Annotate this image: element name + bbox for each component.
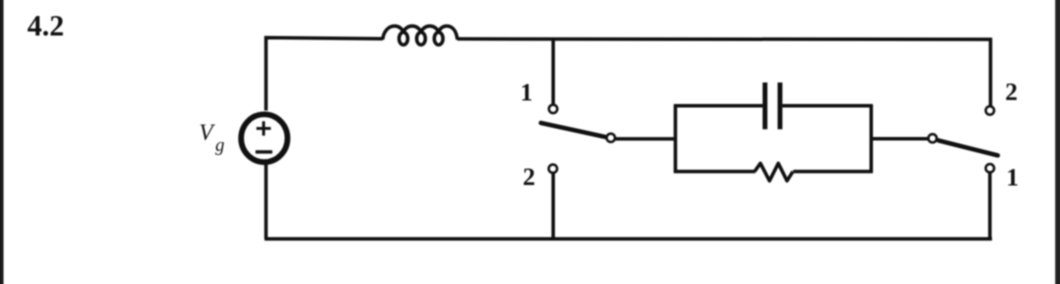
voltage source Vg circle bbox=[241, 114, 287, 162]
wire from S1 throw 2 down to bottom rail bbox=[551, 173, 555, 239]
resistor R zigzag bbox=[755, 163, 793, 181]
svg-text:1: 1 bbox=[1006, 164, 1019, 191]
inductor L bbox=[383, 26, 458, 45]
network box bottom edge right part bbox=[793, 170, 872, 174]
wire stub from top rail down to switch S1 throw 1 bbox=[551, 39, 555, 105]
svg-text:2: 2 bbox=[523, 164, 536, 191]
network box right edge bbox=[869, 104, 873, 173]
plus sign inside source bbox=[256, 121, 270, 135]
svg-text:2: 2 bbox=[1005, 79, 1018, 106]
switch S2 throw-1 contact bbox=[986, 164, 994, 172]
network box top edge left part bbox=[674, 104, 763, 108]
svg-text:1: 1 bbox=[520, 80, 533, 107]
wire top rail from inductor to top-right corner down to switch S2 throw 2 bbox=[457, 39, 990, 107]
wire network box to S2 pole bbox=[871, 137, 928, 141]
switch S1 throw-1 contact bbox=[549, 105, 557, 113]
switch S2 throw-2 contact bbox=[986, 106, 994, 114]
switch S2 blade bbox=[938, 140, 998, 155]
wire bottom rail bbox=[265, 237, 993, 241]
switch S1 pole contact bbox=[607, 134, 615, 142]
capacitor C plates bbox=[765, 83, 780, 130]
svg-text:V: V bbox=[199, 120, 216, 145]
network box bottom edge left part bbox=[674, 170, 755, 174]
switch S1 throw-2 contact bbox=[549, 165, 557, 173]
wire from source top to inductor (left vertical + top rail left segment) bbox=[266, 38, 383, 111]
switch S2 pole contact bbox=[928, 134, 936, 142]
svg-text:g: g bbox=[215, 136, 224, 156]
switch S1 blade bbox=[541, 123, 605, 137]
network box left edge bbox=[674, 104, 678, 173]
wire source bottom lead bbox=[264, 164, 268, 239]
minus sign inside source bbox=[256, 150, 273, 153]
network box top edge right part bbox=[782, 104, 872, 108]
wire S1 pole to network box bbox=[615, 137, 677, 141]
svg-text:4.2: 4.2 bbox=[27, 10, 64, 42]
wire from S2 throw 1 down to bottom rail bbox=[988, 172, 992, 239]
